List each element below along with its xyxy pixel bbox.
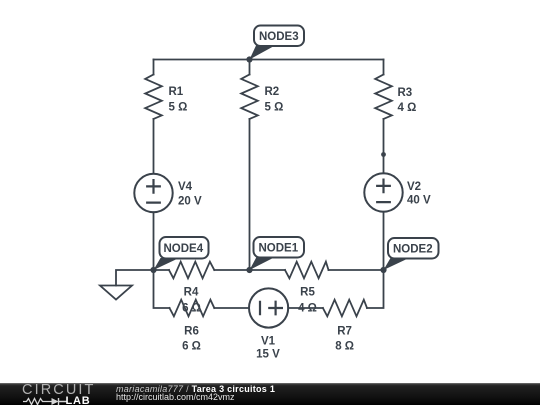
svg-text:NODE3: NODE3 xyxy=(259,31,299,43)
wire V2 to NODE2 xyxy=(383,212,385,270)
svg-text:R6: R6 xyxy=(184,326,199,338)
ground xyxy=(100,286,132,300)
junction dot above V2 xyxy=(381,152,386,157)
svg-text:NODE4: NODE4 xyxy=(164,243,204,255)
svg-text:4 Ω: 4 Ω xyxy=(298,303,317,315)
voltage source V1 xyxy=(249,288,288,327)
svg-text:R5: R5 xyxy=(300,287,315,299)
svg-text:5 Ω: 5 Ω xyxy=(169,102,188,114)
svg-text:15 V: 15 V xyxy=(256,349,280,361)
resistor R4 xyxy=(169,262,214,279)
wire V1 to R7 xyxy=(288,307,323,309)
wire middle column upper lead xyxy=(249,60,251,75)
wire NODE4 down to bottom rail xyxy=(154,270,170,308)
svg-text:V2: V2 xyxy=(407,181,421,193)
wire middle rail left segment xyxy=(154,269,170,271)
svg-text:V1: V1 xyxy=(261,336,276,348)
wire ground branch xyxy=(116,270,154,286)
wire R5 to NODE2 xyxy=(329,269,384,271)
wire R6 to V1 xyxy=(214,307,249,309)
resistor R6 xyxy=(170,300,215,317)
svg-text:R7: R7 xyxy=(337,326,352,338)
wire V4 to NODE4 xyxy=(153,212,155,270)
wire R2 to NODE1 xyxy=(249,119,251,270)
svg-text:40 V: 40 V xyxy=(407,195,431,207)
node NODE2 xyxy=(380,238,438,273)
wire R3 to V2 xyxy=(383,119,385,173)
resistor R7 xyxy=(323,300,367,317)
footer bar xyxy=(0,383,540,405)
svg-text:20 V: 20 V xyxy=(178,196,202,208)
svg-text:4 Ω: 4 Ω xyxy=(398,102,417,114)
wire top rail NODE3 xyxy=(154,59,384,61)
CircuitLab logo xyxy=(22,384,102,404)
node NODE3 xyxy=(246,26,304,63)
voltage source V2 xyxy=(364,173,402,211)
svg-text:R3: R3 xyxy=(398,87,413,99)
node NODE1 xyxy=(246,237,304,273)
svg-text:8 Ω: 8 Ω xyxy=(335,341,354,353)
node NODE4 xyxy=(150,237,208,273)
wire R1 to V4 xyxy=(153,119,155,174)
svg-text:R2: R2 xyxy=(265,86,280,98)
svg-text:NODE1: NODE1 xyxy=(259,243,299,255)
svg-text:R1: R1 xyxy=(169,86,184,98)
wire R7 to NODE2 corner xyxy=(367,270,384,308)
svg-text:6 Ω: 6 Ω xyxy=(182,303,201,315)
svg-text:V4: V4 xyxy=(178,181,193,193)
svg-text:5 Ω: 5 Ω xyxy=(265,102,284,114)
svg-text:NODE2: NODE2 xyxy=(393,244,433,256)
wire right column upper lead xyxy=(383,60,385,75)
resistor R3 xyxy=(375,75,392,120)
svg-text:R4: R4 xyxy=(184,287,199,299)
wire left column upper lead xyxy=(153,60,155,75)
resistor R2 xyxy=(241,75,258,120)
resistor R1 xyxy=(145,75,162,120)
wire R4 to NODE1 xyxy=(214,269,249,271)
wire NODE1 to R5 xyxy=(250,269,286,271)
resistor R5 xyxy=(285,262,329,279)
voltage source V4 xyxy=(134,174,172,212)
logo squiggle resistor+diode xyxy=(21,397,71,405)
svg-text:6 Ω: 6 Ω xyxy=(182,341,201,353)
